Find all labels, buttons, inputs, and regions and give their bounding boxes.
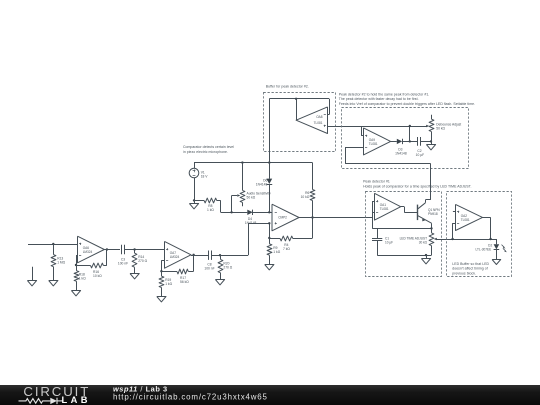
wire OA7 feedback bottom	[161, 271, 177, 273]
box peak det 1 dashed	[366, 192, 442, 277]
svg-text:50 kΩ: 50 kΩ	[436, 126, 445, 130]
wire OA1 left vertical	[372, 201, 374, 228]
resistor R9	[267, 244, 272, 255]
node C2 gnd	[430, 140, 432, 142]
potentiometer LED TIME ADJUST	[431, 229, 433, 233]
node D4 left	[230, 211, 232, 213]
node peak2 top	[409, 125, 411, 127]
node C1/pot top	[430, 227, 432, 229]
wire Q1 collector	[425, 199, 430, 201]
wire C1 bottom	[377, 255, 431, 257]
node D3/C2	[409, 140, 411, 142]
ground R14	[130, 274, 139, 279]
resistor R13	[53, 244, 55, 255]
node rail pot	[241, 161, 243, 163]
wire OA7 out	[191, 255, 208, 257]
ground far-left	[32, 267, 34, 281]
svg-text:Buffer for peak detector #2.: Buffer for peak detector #2.	[266, 85, 309, 89]
svg-text:1 kΩ: 1 kΩ	[165, 282, 172, 286]
logo resistor-diode line	[19, 399, 51, 404]
ground V1	[194, 200, 196, 203]
wire OA2 out	[483, 217, 491, 219]
svg-text:50 kΩ: 50 kΩ	[247, 196, 256, 200]
wire OA1 - stub	[372, 212, 374, 214]
svg-text:OA8: OA8	[316, 115, 323, 119]
wire D4 to CMP2	[253, 212, 272, 214]
svg-text:1 MΩ: 1 MΩ	[57, 261, 65, 265]
node rail buffer	[268, 161, 270, 163]
svg-text:1 kΩ: 1 kΩ	[79, 276, 86, 280]
svg-text:PN918: PN918	[428, 212, 438, 216]
resistor R6 pullup	[312, 163, 314, 190]
wire to comparator +	[248, 223, 250, 255]
resistor R20	[220, 255, 222, 259]
ground C2	[431, 141, 433, 145]
op-amp OA2	[456, 204, 483, 230]
svg-text:1N4148: 1N4148	[395, 151, 407, 155]
svg-text:100 nF: 100 nF	[118, 261, 128, 265]
svg-text:Comparator detects certain lev: Comparator detects certain level	[183, 145, 234, 149]
wire CMP2 output	[299, 217, 372, 219]
node OA6 fb	[75, 264, 77, 266]
svg-text:270 Ω: 270 Ω	[223, 265, 232, 269]
op-amp OA9	[364, 128, 391, 155]
node bottom gnd	[425, 254, 427, 256]
wire OA8 output down	[269, 99, 271, 163]
node OA7 output	[192, 254, 194, 256]
svg-text:18 V: 18 V	[201, 174, 209, 178]
svg-text:doesn't affect timing of: doesn't affect timing of	[452, 267, 487, 271]
wire C8-R20	[211, 255, 248, 257]
wire OA1 + stub	[372, 201, 374, 203]
wire OA7 inv input	[161, 260, 164, 262]
diode D4	[247, 210, 252, 215]
wire pot wiper	[231, 196, 233, 213]
ground LED	[492, 260, 501, 265]
svg-text:10 kΩ: 10 kΩ	[301, 195, 310, 199]
wire OA6 feedback bottom	[76, 265, 91, 267]
wire OA1 out	[401, 206, 405, 208]
svg-text:Peak detector #2 to hold the s: Peak detector #2 to hold the same peak f…	[339, 92, 430, 96]
wire R8 to D4	[220, 200, 222, 212]
svg-text:TL081: TL081	[380, 207, 389, 211]
svg-text:The peak detector with faster: The peak detector with faster decay had …	[339, 97, 419, 101]
wire OA9 out	[391, 141, 397, 143]
svg-text:270 Ω: 270 Ω	[138, 259, 147, 263]
capacitor C8	[208, 251, 210, 260]
wire V1 bottom	[194, 178, 196, 201]
wire OA9 + feedback	[345, 147, 363, 149]
ground R18	[71, 291, 80, 296]
svg-text:Holds peak of comparator for a: Holds peak of comparator for a time spec…	[363, 184, 472, 188]
svg-text:LAB: LAB	[62, 395, 91, 405]
node CMP2 +	[268, 222, 270, 224]
wire OA8 output up	[296, 99, 298, 120]
wire peak2 node up	[409, 126, 411, 141]
node wiper tee	[451, 238, 453, 240]
wire D3-C2	[402, 141, 417, 143]
ground peak det 1	[426, 255, 428, 259]
capacitor C1	[377, 228, 379, 238]
node CMP2 - junction	[268, 211, 270, 213]
node C3/R14	[133, 248, 135, 250]
svg-text:10 µF: 10 µF	[385, 240, 393, 244]
wire wiper to LED buffer	[434, 238, 437, 240]
ground R20	[215, 280, 224, 285]
wire OA6 out	[104, 249, 120, 251]
svg-text:10 kΩ: 10 kΩ	[93, 274, 102, 278]
wire R6-R4 vertical	[312, 218, 314, 239]
svg-text:LM324: LM324	[83, 250, 93, 254]
node C8/R20	[219, 254, 221, 256]
op-amp OA6	[78, 236, 105, 263]
node OA2 fb	[489, 238, 491, 240]
op-amp OA8	[296, 107, 327, 134]
wire V1 top	[194, 163, 196, 169]
resistor R17	[177, 269, 188, 274]
node R4 left	[268, 237, 270, 239]
potentiometer Debounce Adjust	[431, 115, 433, 119]
wire OA8 - feedback	[328, 114, 330, 116]
node OA8 fb	[295, 98, 297, 100]
svg-text:http://circuitlab.com/c72u3hxt: http://circuitlab.com/c72u3hxtx4w65	[113, 392, 268, 401]
op-amp OA1	[375, 193, 401, 220]
wire C2-gnd	[420, 141, 431, 143]
svg-text:Feeds into Vref of comparator: Feeds into Vref of comparator to prevent…	[339, 102, 475, 106]
box LED buffer dashed	[447, 192, 512, 277]
resistor R4	[269, 238, 280, 240]
svg-text:1N4148: 1N4148	[245, 221, 257, 225]
svg-text:7 kΩ: 7 kΩ	[283, 247, 290, 251]
node OA6 output	[106, 248, 108, 250]
svg-text:100 nF: 100 nF	[204, 267, 214, 271]
svg-text:TL081: TL081	[314, 121, 323, 125]
potentiometer Audio Sensitivity	[242, 163, 244, 191]
ground R19	[157, 297, 166, 302]
svg-text:1 kΩ: 1 kΩ	[273, 250, 280, 254]
svg-text:CMP2: CMP2	[278, 216, 287, 220]
svg-text:Peak detector #1: Peak detector #1	[363, 180, 390, 184]
wire input	[28, 244, 78, 246]
svg-text:TL081: TL081	[461, 218, 470, 222]
svg-text:LM324: LM324	[170, 255, 180, 259]
svg-text:in piezo electric microphone.: in piezo electric microphone.	[183, 150, 228, 154]
source V1	[189, 168, 199, 178]
wire OA6 inv input	[76, 255, 78, 257]
wire rail 18V	[194, 162, 313, 164]
LED arrows	[502, 245, 505, 248]
node V1 gnd	[193, 199, 195, 201]
wire OA2 - input	[453, 223, 456, 225]
comparator CMP2	[272, 204, 299, 231]
diode D3	[397, 139, 402, 144]
wire OA8 + to peak det	[328, 126, 427, 128]
svg-text:previous block.: previous block.	[452, 271, 476, 275]
op-amp OA7	[165, 241, 192, 268]
svg-text:10 µF: 10 µF	[416, 153, 425, 157]
svg-text:LED Buffer so that LED: LED Buffer so that LED	[452, 262, 489, 266]
svg-text:1N4148: 1N4148	[256, 182, 268, 186]
wire C1 top	[372, 228, 431, 230]
ground R13	[49, 281, 58, 286]
ground R9	[265, 265, 274, 270]
wire C3-R14	[125, 249, 165, 251]
node OA7 fb	[160, 270, 162, 272]
svg-text:30 kΩ: 30 kΩ	[419, 240, 428, 244]
svg-text:56 kΩ: 56 kΩ	[180, 280, 189, 284]
wire OA9 - input	[361, 126, 363, 136]
diode D6	[269, 163, 271, 179]
capacitor C2	[417, 137, 419, 146]
wire OA2 + stub	[453, 211, 456, 213]
resistor R16	[91, 263, 104, 268]
svg-text:TL081: TL081	[369, 142, 378, 146]
resistor R14	[134, 250, 136, 254]
box peak det 2 dashed	[342, 108, 469, 169]
capacitor C3	[121, 245, 123, 254]
node input junction	[52, 243, 54, 245]
transistor Q1	[417, 205, 419, 221]
resistor R19	[161, 271, 163, 276]
resistor R8	[194, 200, 204, 202]
resistor R18	[76, 265, 78, 271]
box buffer dashed	[264, 93, 336, 152]
LED D2	[494, 244, 500, 249]
svg-text:LTL-307EE: LTL-307EE	[476, 248, 492, 252]
wire + node down	[269, 223, 271, 244]
node CMP2 output	[311, 216, 313, 218]
svg-text:1 kΩ: 1 kΩ	[207, 208, 214, 212]
